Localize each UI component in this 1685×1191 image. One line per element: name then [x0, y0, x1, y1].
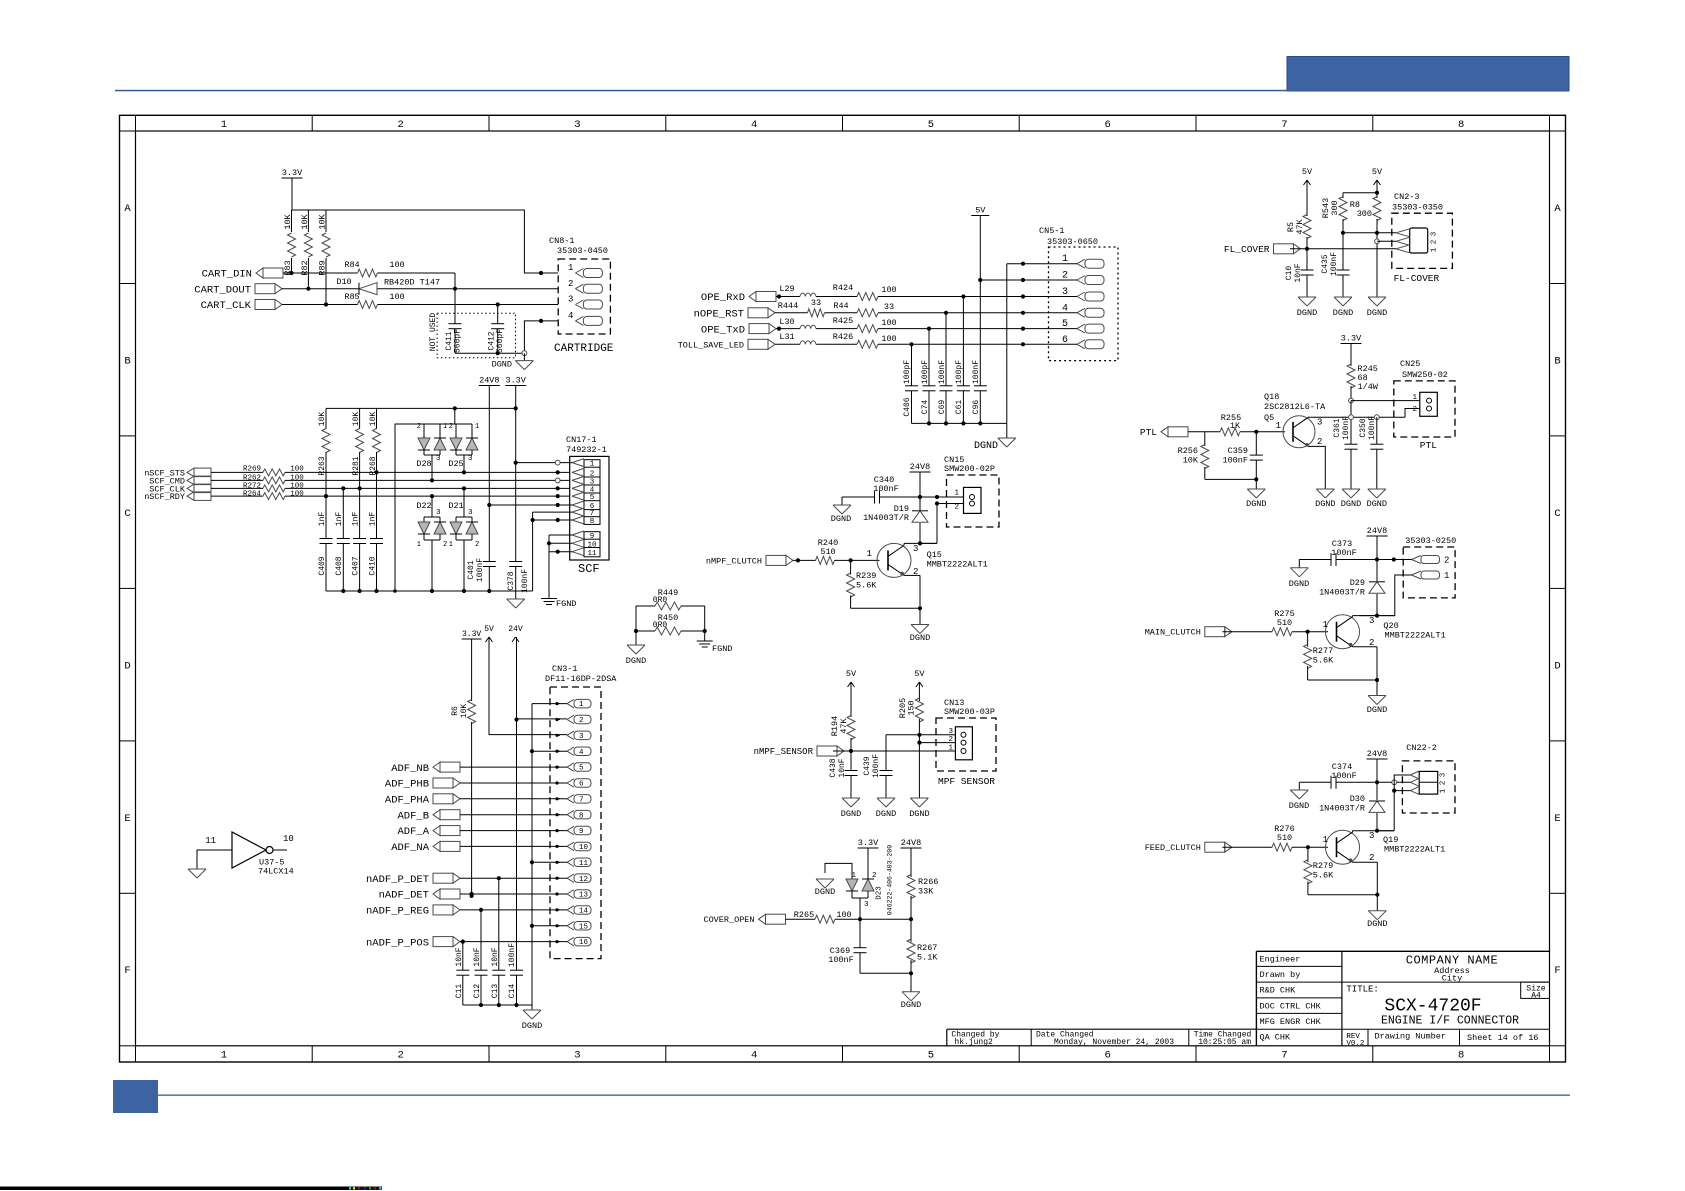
svg-text:4: 4: [751, 119, 757, 131]
resistor R424 100: [833, 283, 897, 301]
svg-text:1: 1: [221, 1050, 227, 1062]
capacitor C411 560pF (not used): [445, 289, 463, 354]
wire CN15 pin2 to collector: [920, 501, 964, 543]
svg-text:2: 2: [948, 736, 953, 744]
svg-text:10nF: 10nF: [455, 947, 464, 966]
svg-text:3: 3: [1440, 772, 1448, 777]
diode D10 RB420D T147: [336, 277, 440, 295]
svg-text:4: 4: [568, 311, 573, 321]
ground DGND (ADF): [522, 1010, 542, 1031]
svg-text:9: 9: [590, 533, 595, 541]
svg-text:nADF_P_REG: nADF_P_REG: [366, 906, 429, 918]
resistor R8 300: [1350, 180, 1381, 297]
svg-text:2: 2: [579, 717, 584, 725]
svg-text:DGND: DGND: [974, 441, 998, 452]
frame column numbers: [221, 119, 1465, 1062]
resistor R194 47K: [830, 682, 855, 751]
svg-text:10nF: 10nF: [473, 947, 482, 966]
svg-text:C406: C406: [903, 397, 912, 416]
ground DGND (R449): [626, 645, 646, 666]
svg-text:3: 3: [1369, 831, 1374, 841]
header horizontal rule (blue): [115, 90, 1569, 92]
port MAIN_CLUTCH: [1145, 627, 1232, 638]
wire 5V to CN3-1 pin3: [489, 637, 567, 735]
wire COVER_OPEN: [786, 917, 914, 921]
port nSCF_RDY: [144, 492, 211, 502]
svg-text:3.3V: 3.3V: [1341, 334, 1362, 344]
svg-text:MMBT2222ALT1: MMBT2222ALT1: [1385, 631, 1446, 641]
svg-text:DF11-16DP-2DSA: DF11-16DP-2DSA: [545, 674, 617, 684]
svg-text:100: 100: [290, 491, 304, 499]
svg-text:100nF: 100nF: [828, 955, 854, 965]
port OPE_TxD: [701, 324, 776, 337]
svg-text:33: 33: [884, 302, 894, 312]
svg-text:5V: 5V: [1372, 167, 1383, 177]
svg-text:R426: R426: [833, 332, 853, 342]
svg-text:C410: C410: [368, 556, 377, 575]
resistor R264 100 (nSCF_RDY): [211, 491, 570, 500]
port ADF_NB: [391, 762, 460, 775]
svg-text:24V8: 24V8: [1367, 749, 1387, 759]
svg-text:1: 1: [1444, 571, 1449, 581]
svg-text:D21: D21: [448, 501, 463, 511]
svg-text:C439: C439: [863, 756, 872, 775]
svg-text:Q20: Q20: [1383, 621, 1398, 631]
svg-text:10nF: 10nF: [1294, 263, 1303, 282]
connector CN13 SMW200-03P: [936, 698, 996, 771]
power 3.3V (cartridge pull-ups): [282, 168, 304, 178]
svg-text:DGND: DGND: [1367, 705, 1387, 715]
capacitor C69 100nF: [938, 313, 953, 424]
svg-text:33K: 33K: [918, 887, 934, 897]
resistor R449 0R0: [636, 588, 705, 610]
resistor R239 5.6K: [847, 560, 878, 608]
svg-text:F: F: [124, 965, 130, 977]
svg-text:7: 7: [579, 796, 584, 804]
svg-text:OPE_RxD: OPE_RxD: [701, 292, 745, 304]
svg-text:1: 1: [1431, 247, 1439, 252]
svg-text:1: 1: [867, 549, 872, 559]
svg-text:R266: R266: [918, 877, 938, 887]
svg-text:R267: R267: [917, 943, 937, 953]
svg-text:24V8: 24V8: [479, 376, 499, 386]
svg-text:Engineer: Engineer: [1260, 955, 1301, 965]
svg-text:10nF: 10nF: [838, 758, 847, 777]
port ADF_A: [397, 826, 460, 839]
wire Q15 emitter to DGND: [904, 575, 920, 608]
resistor R266 33K: [907, 848, 938, 919]
resistor R245 68 1/4W: [1347, 344, 1379, 401]
svg-text:12: 12: [579, 876, 588, 884]
capacitor C401 100nF: [467, 503, 496, 591]
svg-text:CN2-3: CN2-3: [1394, 192, 1420, 202]
svg-text:DGND: DGND: [841, 809, 861, 819]
dual diode D21: [448, 486, 479, 591]
svg-text:MAIN_CLUTCH: MAIN_CLUTCH: [1145, 628, 1201, 638]
svg-text:Q15: Q15: [927, 550, 942, 560]
wire CN8-1 pin4 to DGND rail: [455, 319, 558, 356]
power 24V8 (SCF): [479, 376, 500, 386]
svg-text:35303-0250: 35303-0250: [1405, 536, 1456, 546]
svg-text:3: 3: [1062, 287, 1068, 298]
svg-text:SMW250-02: SMW250-02: [1402, 370, 1448, 380]
label MPF SENSOR: [938, 776, 995, 787]
svg-text:CART_CLK: CART_CLK: [201, 300, 252, 312]
capacitor C359 100nF: [1222, 432, 1262, 480]
bottom strip colored ticks: [349, 1187, 382, 1191]
svg-text:R&D CHK: R&D CHK: [1260, 986, 1297, 996]
svg-text:100pF: 100pF: [955, 360, 964, 384]
svg-text:CN5-1: CN5-1: [1039, 226, 1065, 236]
capacitor C14 100nF: [508, 717, 523, 1005]
svg-text:hk.jung2: hk.jung2: [954, 1038, 993, 1047]
svg-text:DGND: DGND: [901, 1000, 921, 1010]
svg-text:ADF_A: ADF_A: [397, 826, 429, 838]
svg-text:1: 1: [475, 423, 479, 431]
svg-text:2: 2: [417, 423, 421, 431]
inverter U37-5 74LCX14: [197, 832, 294, 877]
svg-text:3: 3: [579, 733, 584, 741]
svg-text:2: 2: [872, 872, 877, 880]
svg-text:100: 100: [881, 334, 896, 344]
dual diode D28: [416, 423, 447, 483]
svg-text:MFG ENGR CHK: MFG ENGR CHK: [1260, 1017, 1322, 1027]
svg-text:3: 3: [574, 1050, 580, 1062]
wire ADF_NA to CN3-1 pin 10: [460, 845, 567, 847]
ground DGND (C361): [1341, 489, 1361, 509]
ground FGND (SCF): [541, 599, 576, 610]
svg-text:TITLE:: TITLE:: [1346, 985, 1378, 995]
svg-text:DGND: DGND: [876, 809, 896, 819]
svg-text:4: 4: [751, 1050, 757, 1062]
port ADF_NA: [391, 841, 460, 854]
capacitor C74 100pF: [921, 329, 936, 424]
capacitor C96 100nF: [972, 360, 987, 424]
resistor R272 100 (SCF_CLK): [211, 483, 570, 492]
svg-text:3: 3: [1317, 418, 1322, 428]
svg-text:300: 300: [1330, 200, 1340, 215]
port nOPE_RST: [694, 308, 775, 321]
capacitor C361 100nF: [1333, 416, 1358, 489]
power 24V8 (main clutch): [1367, 526, 1388, 536]
power 3.3V (cover): [858, 838, 880, 848]
resistor R269 100 (nSCF_STS): [211, 466, 570, 476]
svg-text:11: 11: [205, 836, 216, 846]
svg-text:C61: C61: [955, 400, 964, 415]
ground DGND (Q15): [910, 625, 930, 644]
svg-text:nMPF_CLUTCH: nMPF_CLUTCH: [706, 556, 762, 566]
wire ADF caps bottom rail: [463, 1003, 532, 1010]
svg-text:MPF SENSOR: MPF SENSOR: [938, 776, 995, 787]
wire PTL bottom rail: [1205, 477, 1259, 489]
wire nADF_P_REG to CN3-1 pin 14: [460, 908, 567, 912]
wire pin3 line: [1341, 231, 1396, 235]
svg-text:2SC2812L6-TA: 2SC2812L6-TA: [1264, 402, 1326, 412]
svg-text:16: 16: [579, 939, 589, 947]
svg-text:R444: R444: [778, 301, 798, 311]
svg-text:100pF: 100pF: [903, 360, 912, 384]
svg-text:10K: 10K: [1183, 456, 1199, 466]
svg-text:D29: D29: [1350, 578, 1365, 588]
svg-text:2: 2: [1369, 853, 1374, 863]
svg-text:1: 1: [948, 745, 953, 753]
label PTL (connector): [1420, 440, 1437, 451]
svg-text:ADF_PHB: ADF_PHB: [385, 779, 429, 791]
svg-text:2: 2: [1412, 406, 1417, 414]
diode D19 1N4003T/R: [863, 497, 928, 546]
wire nADF_P_POS to CN3-1 pin 16: [460, 940, 567, 944]
svg-text:10:25:05 am: 10:25:05 am: [1198, 1038, 1251, 1047]
svg-text:DGND: DGND: [815, 887, 835, 897]
svg-text:2: 2: [1440, 781, 1448, 786]
svg-text:100nF: 100nF: [1222, 456, 1248, 466]
NOT USED box: [429, 313, 516, 358]
svg-text:1: 1: [1062, 254, 1068, 265]
capacitor C373 100nF: [1299, 539, 1377, 566]
svg-text:3: 3: [436, 509, 441, 517]
svg-text:3.3V: 3.3V: [505, 376, 526, 386]
svg-text:RB420D T147: RB420D T147: [384, 278, 440, 288]
port CART_CLK: [201, 300, 282, 313]
svg-text:DGND: DGND: [1333, 308, 1353, 318]
resistor R84 100: [344, 260, 404, 277]
capacitor C350 100nF: [1359, 416, 1384, 489]
connector CN17-1 749232-1: [566, 435, 609, 560]
svg-text:100: 100: [290, 483, 304, 491]
wire CN13 pin3 branch: [886, 735, 955, 771]
svg-text:B: B: [124, 355, 130, 367]
svg-text:100nF: 100nF: [476, 558, 485, 582]
svg-text:Sheet 14 of 16: Sheet 14 of 16: [1467, 1033, 1538, 1043]
svg-text:24V8: 24V8: [901, 838, 921, 848]
resistor R425 100: [833, 316, 897, 333]
svg-text:DGND: DGND: [522, 1021, 542, 1031]
wire CN13 pin2 branch: [919, 742, 955, 744]
svg-text:5.6K: 5.6K: [1313, 656, 1334, 666]
svg-text:10: 10: [283, 834, 294, 844]
capacitor C374 100nF: [1299, 762, 1377, 789]
svg-text:L30: L30: [779, 317, 794, 327]
svg-text:DGND: DGND: [1341, 499, 1361, 509]
svg-text:DOC CTRL CHK: DOC CTRL CHK: [1260, 1001, 1322, 1011]
ground DGND (Q19): [1367, 911, 1387, 929]
svg-text:7: 7: [1281, 119, 1287, 131]
svg-text:2: 2: [449, 423, 453, 431]
svg-text:6: 6: [1104, 119, 1110, 131]
svg-text:5: 5: [928, 119, 934, 131]
svg-text:DGND: DGND: [1367, 308, 1387, 318]
svg-text:100nF: 100nF: [873, 484, 899, 494]
ground DGND (R205): [909, 798, 929, 819]
wire nMPF_SENSOR to CN13 pin1: [833, 749, 955, 753]
capacitor C406 100pF: [903, 344, 918, 423]
svg-text:D10: D10: [336, 277, 351, 287]
svg-text:C407: C407: [351, 556, 360, 575]
wire R239 to emitter rail: [851, 606, 923, 624]
wire 24V8 to CN15 pin1: [918, 472, 964, 499]
port nSCF_STS: [144, 468, 211, 478]
capacitor C10 10nF: [1285, 249, 1314, 297]
svg-text:nMPF_SENSOR: nMPF_SENSOR: [754, 747, 814, 757]
power 5V (R5): [1302, 167, 1313, 185]
wire TOLL_SAVE_LED: [775, 342, 1077, 346]
power 3.3V (ADF): [462, 630, 482, 639]
wire ADF_NB to CN3-1 pin 5: [460, 766, 567, 768]
diode D29 1N4003T/R: [1319, 560, 1385, 618]
ground DGND (C438): [841, 798, 861, 819]
ground DGND (C350): [1367, 489, 1387, 509]
port ADF_B: [397, 810, 460, 823]
svg-text:100: 100: [389, 292, 404, 302]
svg-text:R269: R269: [243, 466, 261, 474]
port ADF_PHB: [385, 778, 460, 791]
wire Q19 emitter: [1353, 862, 1378, 895]
svg-text:2: 2: [1431, 240, 1439, 245]
port OPE_RxD: [701, 292, 776, 305]
capacitor C13 10nF: [491, 878, 506, 1005]
resistor R6 10K: [451, 639, 476, 898]
svg-text:ADF_B: ADF_B: [397, 810, 429, 822]
capacitor C369 100nF: [828, 919, 866, 973]
svg-text:ADF_PHA: ADF_PHA: [385, 795, 430, 807]
inductor L29: [779, 284, 816, 297]
svg-text:CN3-1: CN3-1: [552, 664, 578, 674]
wire ADF ground bus (pins 1,4,11,15): [530, 704, 567, 1005]
svg-text:35303-0650: 35303-0650: [1047, 237, 1098, 247]
svg-text:1N4003T/R: 1N4003T/R: [863, 513, 909, 523]
svg-text:2: 2: [1062, 271, 1068, 282]
power 3.3V (SCF): [505, 376, 527, 386]
label FL-COVER: [1394, 273, 1440, 284]
ground DGND (C435): [1333, 297, 1353, 318]
svg-text:nADF_P_POS: nADF_P_POS: [366, 937, 429, 949]
capacitor C11 10nF: [455, 942, 470, 1005]
resistor R450 0R0: [636, 613, 705, 635]
svg-text:5: 5: [1062, 319, 1068, 330]
wire pin2 line: [1377, 240, 1396, 242]
wire cover bottom rail: [860, 971, 913, 992]
capacitor C340 100nF: [842, 475, 920, 504]
svg-text:2: 2: [568, 279, 573, 289]
svg-text:5.6K: 5.6K: [856, 581, 877, 591]
resistor R276 510: [1272, 824, 1295, 851]
svg-text:D25: D25: [448, 459, 463, 469]
ground (U37 input): [188, 869, 206, 878]
svg-text:1: 1: [579, 701, 584, 709]
ground DGND (D23): [815, 879, 835, 897]
svg-text:100nF: 100nF: [508, 943, 517, 967]
port SCF_CMD: [149, 476, 211, 486]
svg-text:TOLL_SAVE_LED: TOLL_SAVE_LED: [678, 340, 744, 350]
resistor R89 10K: [318, 210, 331, 305]
svg-text:ADF_NA: ADF_NA: [391, 842, 430, 854]
connector CN5-1 35303-0650: [1039, 226, 1118, 361]
dual diode D22: [416, 494, 447, 591]
resistor R240 510: [816, 538, 839, 564]
ground DGND (C10): [1297, 297, 1317, 318]
svg-text:CN25: CN25: [1400, 359, 1420, 369]
transistor Q20 MMBT2222ALT1: [1323, 615, 1446, 649]
svg-text:FGND: FGND: [556, 599, 576, 609]
label SCF: [578, 562, 600, 576]
transistor Q18 2SC2812L6-TA: [1264, 392, 1326, 448]
svg-text:100nF: 100nF: [972, 360, 981, 384]
svg-text:C14: C14: [508, 984, 517, 999]
port nADF_DET: [379, 889, 460, 902]
svg-text:3: 3: [864, 901, 869, 909]
svg-text:47K: 47K: [839, 717, 849, 733]
svg-text:6: 6: [579, 781, 584, 789]
port CART_DIN: [202, 268, 283, 281]
svg-text:100: 100: [389, 260, 404, 270]
ground DGND (C373): [1289, 560, 1309, 590]
svg-text:10nF: 10nF: [491, 947, 500, 966]
svg-text:1: 1: [954, 490, 959, 498]
svg-text:C350: C350: [1359, 418, 1368, 437]
resistor R426 100: [833, 332, 897, 348]
power 24V8 (feed clutch): [1367, 749, 1388, 759]
svg-text:Q18: Q18: [1264, 392, 1279, 402]
resistor R267 5.1K: [907, 919, 938, 973]
svg-text:2: 2: [1444, 556, 1449, 566]
svg-text:100: 100: [881, 318, 896, 328]
svg-text:24V: 24V: [508, 625, 523, 634]
connector CN2-3 35303-0350: [1392, 192, 1453, 268]
svg-text:2: 2: [443, 541, 447, 549]
wire ADF_B to CN3-1 pin 8: [460, 814, 567, 816]
svg-text:C74: C74: [921, 400, 930, 415]
power 5V (R205): [914, 669, 925, 687]
bottom black strip: [0, 1187, 349, 1191]
capacitor C438 10nF: [829, 751, 858, 798]
svg-text:E: E: [124, 813, 130, 825]
svg-text:CARTRIDGE: CARTRIDGE: [554, 343, 614, 355]
resistor R83 10K: [283, 210, 296, 276]
svg-text:ADF_NB: ADF_NB: [391, 763, 429, 775]
inductor L30: [779, 317, 816, 329]
wire Q15 collector: [904, 543, 937, 545]
port nADF_P_POS: [366, 937, 460, 950]
svg-text:1: 1: [1323, 620, 1328, 630]
svg-text:3: 3: [436, 455, 441, 463]
svg-text:100: 100: [881, 285, 896, 295]
port nADF_P_REG: [366, 905, 460, 918]
svg-text:24V8: 24V8: [1367, 526, 1387, 536]
svg-text:SCX-4720F: SCX-4720F: [1384, 996, 1481, 1016]
svg-text:5V: 5V: [975, 206, 986, 216]
wire pin1 to collector node: [1360, 575, 1412, 616]
svg-text:L29: L29: [779, 284, 794, 294]
power 24V8 (MPF clutch): [910, 462, 931, 472]
svg-text:L31: L31: [779, 332, 794, 342]
svg-text:1: 1: [417, 541, 421, 549]
svg-text:2: 2: [397, 1050, 403, 1062]
port TOLL_SAVE_LED: [678, 339, 775, 350]
svg-text:CN8-1: CN8-1: [549, 236, 575, 246]
svg-text:15: 15: [579, 923, 589, 931]
wire CN5-1 pin2: [980, 278, 1077, 282]
svg-text:SCF: SCF: [578, 562, 600, 576]
svg-text:100: 100: [290, 466, 304, 474]
svg-text:A: A: [124, 203, 131, 215]
ground FGND (R450): [697, 641, 733, 654]
svg-text:10: 10: [587, 541, 597, 549]
power 5V (R8): [1372, 167, 1383, 185]
footer blue box: [113, 1080, 158, 1113]
resistor R256 10K: [1178, 432, 1209, 480]
svg-text:DGND: DGND: [1297, 308, 1317, 318]
svg-text:749232-1: 749232-1: [566, 445, 607, 455]
